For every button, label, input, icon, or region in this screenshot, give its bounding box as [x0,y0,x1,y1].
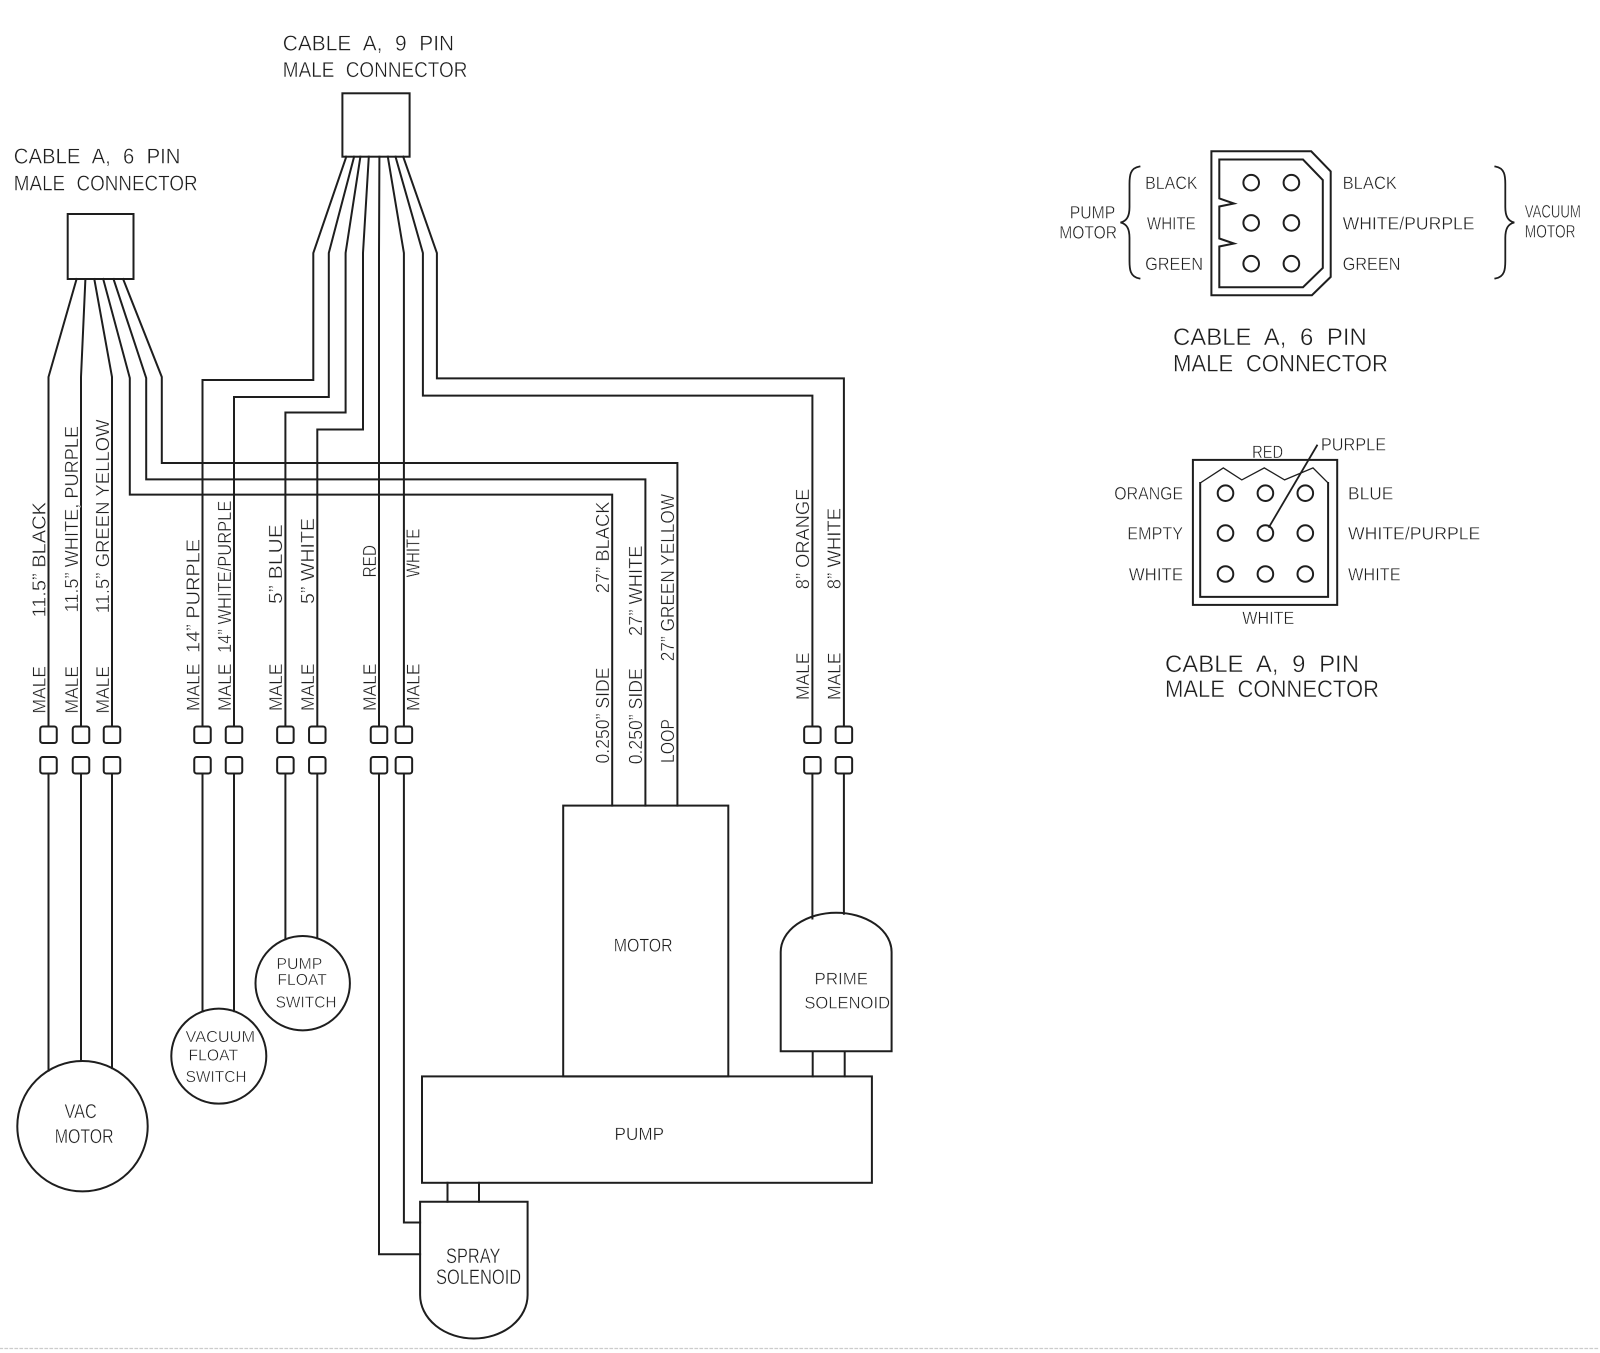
VACUUM FLOAT SWITCH circle [171,1009,266,1104]
svg-text:SWITCH: SWITCH [276,995,337,1012]
wire 27" GREEN YELLOW (J1 to MOTOR) [123,279,677,806]
leader line PURPLE to pin 5 [1269,446,1317,527]
svg-text:PUMP: PUMP [276,956,322,973]
svg-text:5” BLUE: 5” BLUE [266,524,287,604]
svg-text:11.5” GREEN YELLOW: 11.5” GREEN YELLOW [93,419,114,613]
svg-text:MALE: MALE [182,664,203,712]
svg-text:MALE CONNECTOR: MALE CONNECTOR [1173,350,1388,377]
9-pin diagram pin 1 [1218,485,1234,501]
svg-text:MALE CONNECTOR: MALE CONNECTOR [14,171,198,195]
svg-text:WHITE: WHITE [1147,213,1196,233]
svg-text:MALE: MALE [824,653,845,701]
svg-text:8” ORANGE: 8” ORANGE [793,489,814,590]
9-pin diagram pin 5 (PURPLE) [1258,525,1274,541]
6-pin connector diagram outer outline [1211,151,1330,295]
connector J2 (CABLE A, 9 PIN MALE CONNECTOR) body [342,93,409,156]
wire 8" ORANGE (J2 to PRIME SOLENOID) [396,157,813,727]
svg-text:MALE: MALE [297,664,318,712]
wire 11.5" WHITE PURPLE lower segment [80,774,82,1062]
svg-text:EMPTY: EMPTY [1127,524,1183,544]
wire RED (J2 to SPRAY SOLENOID) [378,157,380,727]
wire 8" ORANGE lower segment [811,774,813,919]
9-pin diagram pin 9 [1298,566,1314,582]
svg-text:11.5” BLACK: 11.5” BLACK [29,502,50,618]
svg-text:RED: RED [1252,442,1283,462]
svg-text:14” PURPLE: 14” PURPLE [183,539,204,653]
9-pin diagram pin 8 [1258,566,1274,582]
svg-text:PRIME: PRIME [815,970,869,989]
6-pin diagram pin 2 [1284,175,1300,191]
svg-text:VACUUM: VACUUM [1525,202,1581,222]
svg-text:CABLE A, 9 PIN: CABLE A, 9 PIN [283,31,454,55]
terminal pair on 8" ORANGE [804,727,821,744]
svg-text:WHITE: WHITE [1242,608,1294,628]
6-pin diagram pin 4 [1284,215,1300,231]
6-pin diagram pin 6 [1284,256,1300,272]
MOTOR box [563,806,728,1077]
svg-text:BLACK: BLACK [1343,173,1397,193]
terminal pair on RED [371,727,388,744]
svg-text:SWITCH: SWITCH [186,1069,247,1086]
svg-text:MOTOR: MOTOR [55,1126,114,1148]
brace right (VACUUM MOTOR) [1495,167,1514,279]
wire WHITE (J2 to SPRAY SOLENOID) [388,157,404,727]
svg-text:PURPLE: PURPLE [1321,435,1386,455]
svg-text:WHITE/PURPLE: WHITE/PURPLE [1348,524,1480,544]
wire RED lower segment [379,774,420,1255]
svg-text:8” WHITE: 8” WHITE [825,508,846,589]
wire 14" PURPLE (J2 to VACUUM FLOAT SWITCH) [203,157,347,727]
svg-text:FLOAT: FLOAT [277,972,327,989]
svg-text:27” WHITE: 27” WHITE [626,546,647,637]
svg-text:MALE: MALE [28,666,49,714]
svg-text:MALE: MALE [403,664,424,712]
PRIME SOLENOID stub right [844,1052,846,1077]
svg-text:0.250” SIDE: 0.250” SIDE [626,668,647,764]
wire 5" BLUE (J2 to PUMP FLOAT SWITCH) [285,157,360,727]
PRIME SOLENOID stub left [812,1052,814,1077]
terminal pair on 8" WHITE [836,727,853,744]
svg-text:MALE: MALE [61,666,82,714]
svg-text:MOTOR: MOTOR [614,935,673,956]
svg-text:SPRAY: SPRAY [446,1245,500,1268]
PRIME SOLENOID body [781,913,892,1051]
terminal pair on 14" PURPLE [194,727,211,744]
9-pin diagram pin 7 [1218,566,1234,582]
svg-text:WHITE/PURPLE: WHITE/PURPLE [1343,213,1475,233]
9-pin diagram pin 2 [1258,485,1274,501]
VAC MOTOR circle [17,1061,147,1191]
svg-text:WHITE: WHITE [404,529,425,578]
terminal pair on 5" WHITE [309,727,326,744]
svg-text:CABLE A, 6 PIN: CABLE A, 6 PIN [1173,324,1367,351]
svg-text:11.5” WHITE, PURPLE: 11.5” WHITE, PURPLE [62,426,83,613]
wire 14" WHITE/PURPLE (J2 to VACUUM FLOAT SWITCH) [234,157,354,727]
wire 5" WHITE (J2 to PUMP FLOAT SWITCH) [317,157,369,727]
6-pin diagram pin 3 [1243,215,1259,231]
svg-text:ORANGE: ORANGE [1114,484,1183,504]
wire 8" WHITE lower segment [843,774,845,914]
wire 27" WHITE (J1 to MOTOR) [114,279,646,806]
svg-text:0.250” SIDE: 0.250” SIDE [593,668,614,764]
svg-text:MALE: MALE [359,664,380,712]
svg-text:BLACK: BLACK [1145,173,1198,193]
svg-text:MALE: MALE [92,666,113,714]
svg-text:5” WHITE: 5” WHITE [298,518,319,604]
svg-text:VACUUM: VACUUM [186,1029,256,1046]
svg-text:FLOAT: FLOAT [189,1048,239,1065]
svg-text:WHITE: WHITE [1348,565,1401,585]
9-pin connector diagram outer outline [1193,460,1337,605]
wire 11.5" GREEN YELLOW (J1 to VAC MOTOR) [94,279,112,727]
wire 5" WHITE lower segment [316,774,318,939]
svg-text:CABLE A, 6 PIN: CABLE A, 6 PIN [14,145,181,169]
svg-text:GREEN: GREEN [1145,254,1203,274]
svg-text:14” WHITE/PURPLE: 14” WHITE/PURPLE [215,501,236,653]
terminal pair on 14" WHITE/PURPLE [226,727,243,744]
svg-text:LOOP: LOOP [658,719,679,763]
svg-text:MOTOR: MOTOR [1525,222,1576,242]
wire 8" WHITE (J2 to PRIME SOLENOID) [403,157,844,727]
svg-text:CABLE A, 9 PIN: CABLE A, 9 PIN [1165,651,1359,678]
SPRAY SOLENOID stub left [447,1183,449,1202]
wire 11.5" BLACK (J1 to VAC MOTOR) [49,279,77,727]
6-pin diagram pin 1 [1243,175,1259,191]
terminal pair on WHITE [396,727,413,744]
faint scan line at bottom [0,1348,1600,1350]
PUMP box [422,1076,872,1182]
svg-text:27” BLACK: 27” BLACK [593,501,614,593]
wire 14" WHITE/PURPLE lower segment [233,774,235,1012]
9-pin connector diagram inner outline with zigzag top [1200,483,1328,597]
SPRAY SOLENOID body [420,1202,527,1339]
svg-text:SOLENOID: SOLENOID [436,1266,521,1289]
svg-text:MALE: MALE [792,653,813,701]
svg-text:PUMP: PUMP [1070,203,1116,223]
connector J1 (CABLE A, 6 PIN MALE CONNECTOR) body [68,214,134,279]
svg-text:WHITE: WHITE [1129,565,1183,585]
svg-text:PUMP: PUMP [615,1124,665,1144]
9-pin diagram pin 3 [1298,485,1314,501]
9-pin connector diagram inner zigzag top edge [1200,468,1328,483]
wire 11.5" WHITE PURPLE (J1 to VAC MOTOR) [81,279,85,727]
svg-text:VAC: VAC [64,1101,96,1123]
terminal pair on 11.5" GREEN YELLOW [104,727,121,744]
svg-text:MALE CONNECTOR: MALE CONNECTOR [1165,676,1379,703]
svg-text:MALE: MALE [214,664,235,712]
PUMP FLOAT SWITCH circle [256,936,350,1030]
SPRAY SOLENOID stub right [478,1183,480,1202]
9-pin diagram pin 6 [1298,525,1314,541]
svg-text:RED: RED [360,545,381,577]
brace left (PUMP MOTOR) [1121,167,1140,279]
wire 11.5" GREEN YELLOW lower segment [111,774,113,1069]
terminal pair on 5" BLUE [277,727,294,744]
svg-text:SOLENOID: SOLENOID [804,993,890,1012]
svg-text:27” GREEN YELLOW: 27” GREEN YELLOW [658,494,679,661]
svg-text:GREEN: GREEN [1343,254,1401,274]
svg-text:BLUE: BLUE [1348,484,1393,504]
9-pin diagram pin 4 [1218,525,1234,541]
wire WHITE lower segment [404,774,420,1223]
6-pin diagram pin 5 [1243,256,1259,272]
wire 5" BLUE lower segment [284,774,286,940]
terminal pair on 11.5" WHITE PURPLE [73,727,90,744]
svg-text:MOTOR: MOTOR [1059,223,1117,243]
wire 27" BLACK (J1 to MOTOR) [103,279,612,806]
svg-text:MALE CONNECTOR: MALE CONNECTOR [283,58,468,82]
wire 11.5" BLACK lower segment [48,774,50,1071]
wire 14" PURPLE lower segment [202,774,204,1012]
svg-text:MALE: MALE [265,664,286,712]
6-pin connector diagram inner outline with key notches [1219,160,1323,288]
terminal pair on 11.5" BLACK [40,727,57,744]
